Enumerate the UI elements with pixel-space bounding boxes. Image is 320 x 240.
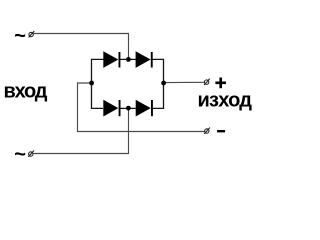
svg-text:~: ~	[14, 144, 26, 166]
diode D4 bottom-right	[136, 100, 153, 117]
terminal T4 minus output	[204, 128, 210, 134]
diode D1 top-left	[103, 51, 120, 68]
diode D2 top-right	[136, 51, 153, 68]
terminal T1 top input	[29, 31, 35, 37]
diode D3 bottom-left	[103, 100, 120, 117]
node junction top-center	[126, 57, 131, 62]
svg-text:изход: изход	[198, 90, 253, 112]
node junction bottom-center	[126, 106, 131, 111]
svg-text:вход: вход	[4, 80, 48, 102]
wire AC1 top run	[34, 34, 129, 60]
node junction right	[161, 81, 166, 86]
node junction left	[89, 81, 94, 86]
wire minus run	[78, 83, 205, 132]
wire bridge outline	[92, 59, 164, 108]
minus sign	[217, 130, 225, 132]
plus sign	[215, 78, 226, 89]
terminal T3 plus output	[204, 79, 210, 85]
wire plus run	[164, 81, 205, 83]
terminal T2 bottom input	[28, 151, 34, 157]
wire AC2 bottom run	[33, 108, 128, 154]
svg-text:~: ~	[14, 25, 26, 47]
